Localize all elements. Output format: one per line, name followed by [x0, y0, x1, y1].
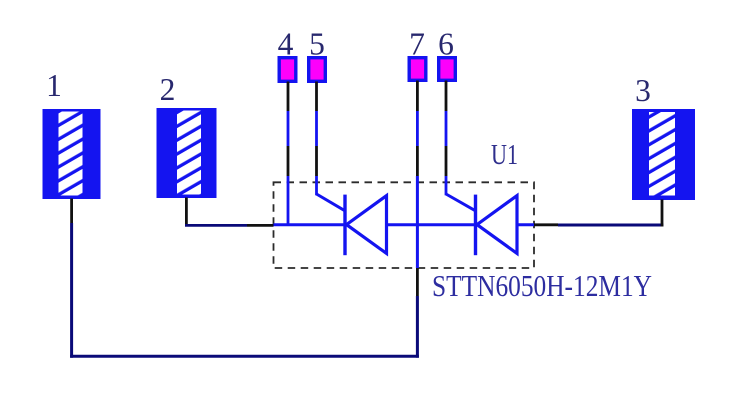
wire pin 5	[315, 82, 318, 196]
wire terminal 2 to U1	[185, 198, 274, 227]
svg-text:7: 7	[409, 27, 425, 62]
bus wire inside U1	[274, 223, 535, 226]
terminal 3	[632, 109, 695, 200]
cathode bar	[343, 195, 346, 256]
pin square 5	[309, 58, 326, 82]
svg-text:2: 2	[160, 72, 176, 107]
terminal 1	[43, 109, 101, 199]
pin square 7	[409, 58, 426, 81]
svg-text:3: 3	[635, 73, 651, 108]
wire pin 7	[416, 81, 419, 358]
triangle	[347, 196, 387, 254]
svg-text:STTN6050H-12M1Y: STTN6050H-12M1Y	[432, 269, 652, 303]
pin square 6	[439, 58, 456, 81]
thyristor Q2 (right)	[446, 194, 517, 255]
cathode bar	[474, 195, 477, 256]
wire U1 to terminal 3	[534, 200, 663, 227]
svg-text:U1: U1	[491, 139, 518, 171]
gate lead	[317, 194, 346, 211]
wire pin 4	[287, 82, 290, 227]
gate lead	[446, 194, 476, 211]
terminal 2	[157, 108, 217, 198]
svg-text:5: 5	[309, 27, 325, 62]
svg-text:6: 6	[438, 27, 454, 62]
wire pin 6	[445, 81, 448, 196]
svg-text:4: 4	[278, 27, 294, 62]
wire terminal 1 to bottom node	[70, 199, 73, 358]
bottom wire (node between terminal 1 and pin 7)	[70, 355, 419, 358]
pin square 4	[279, 58, 296, 82]
thyristor Q1 (left)	[317, 194, 387, 255]
triangle	[477, 196, 517, 254]
svg-text:1: 1	[46, 68, 62, 103]
module U1 dashed outline	[274, 182, 535, 268]
